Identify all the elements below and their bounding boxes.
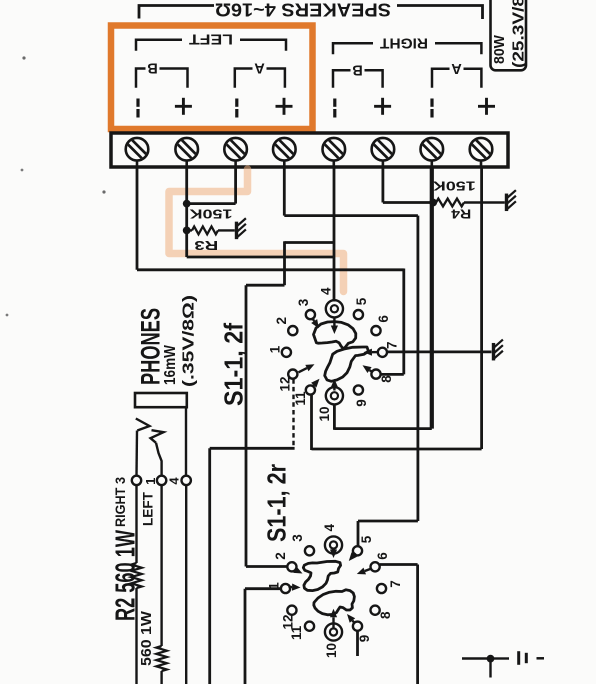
svg-text:3: 3 (296, 298, 311, 306)
svg-text:10: 10 (324, 643, 339, 658)
wire at bottom right (462, 657, 487, 659)
svg-text:1: 1 (266, 582, 281, 590)
wire right vertical to bottom (416, 565, 419, 684)
svg-text:1: 1 (267, 345, 282, 353)
svg-text:11: 11 (293, 391, 308, 406)
svg-text:6: 6 (375, 552, 390, 560)
svg-text:R2 560 1W: R2 560 1W (110, 530, 141, 621)
contact 2 of S1-1,2r (287, 562, 296, 571)
contact 10 of S1-1,2r (double ring) (325, 623, 342, 640)
arrow into wiper from pos3 S1f (311, 319, 319, 329)
svg-text:LEFT: LEFT (140, 492, 156, 526)
bracket speaker A left (235, 69, 285, 88)
terminal strip (8-screw barrier block) (111, 133, 508, 167)
polarity minus mark 1 (136, 99, 139, 107)
svg-text:A: A (254, 59, 265, 75)
screw terminal 2 (185, 158, 188, 167)
svg-text:S1-1, 2f: S1-1, 2f (219, 323, 249, 406)
wire terminal6 down (381, 167, 384, 203)
svg-text:16mW: 16mW (162, 344, 179, 385)
wire below R2 to bottom (135, 588, 137, 684)
wire terminal5 down to pos4 of S1-1,2f (333, 167, 336, 302)
svg-text:80W: 80W (492, 35, 508, 64)
wire jack2 down (160, 485, 162, 646)
resistor R2 560 1W (131, 563, 141, 588)
svg-text:1: 1 (143, 478, 158, 485)
rotor wiper lower of S1-1,2f (325, 347, 369, 381)
label A right (upside down) (450, 62, 464, 76)
svg-text:6: 6 (376, 315, 391, 323)
wire horizontal into pos8 (381, 373, 404, 376)
wire terminal4 run into pos5 S1r (358, 520, 418, 523)
wire jog to S1 area top (285, 241, 335, 244)
polarity plus mark 4 (478, 105, 495, 108)
contact 1 of S1-1,2r (281, 584, 290, 593)
wire vertical left down to bottom (208, 448, 211, 684)
svg-text:A: A (451, 60, 462, 76)
junction node terminal7 wire (429, 199, 437, 207)
svg-text:2: 2 (274, 317, 289, 325)
wire terminal2 down (185, 167, 188, 257)
wire pos7 S1f to chassis ground (387, 350, 491, 353)
junction node on terminal2 wire (upper) (183, 200, 191, 208)
polarity plus mark 3 (374, 105, 391, 108)
polarity plus mark 2 (276, 105, 293, 108)
arrow into wiper from pos7 S1f (364, 349, 378, 356)
label B right (upside down) (351, 64, 365, 78)
jack terminal ring 3 (182, 476, 191, 485)
svg-text:RIGHT: RIGHT (380, 34, 428, 50)
screw terminal 5 (332, 158, 335, 167)
wire pos9 S1r down (356, 631, 359, 656)
wire terminal3 to junction on T2 wire (187, 202, 236, 205)
arrow into wiper from pos4 S1r (330, 549, 337, 558)
wire terminal1 horizontal run (137, 268, 404, 271)
stray scan speck (102, 190, 105, 193)
contact 7 of S1-1,2r (377, 584, 386, 593)
svg-text:3: 3 (290, 534, 305, 542)
label RIGHT (upside down) (373, 36, 435, 51)
contact 4 of S1-1,2f (double ring) (326, 300, 343, 317)
wire terminal6 horizontal to junction (383, 201, 433, 204)
resistor R4 150K (436, 199, 464, 207)
contact 6 of S1-1,2r (371, 562, 380, 571)
arrow into wiper from pos10 S1r (330, 609, 337, 628)
wire dash after capacitor (537, 657, 545, 660)
arrow into wiper from pos2 S1r (293, 567, 302, 574)
dashed wire from pos12 S1f down (292, 379, 294, 446)
wire terminal4 vertical down right side (416, 216, 419, 521)
svg-text:10: 10 (317, 406, 332, 421)
arrow into wiper from pos11 S1f (311, 379, 319, 388)
wire terminal2 horizontal run to T5 wire (187, 256, 334, 259)
svg-text:2: 2 (273, 552, 288, 560)
stray scan speck (22, 56, 25, 59)
svg-text:560 1W: 560 1W (138, 610, 155, 666)
contact 8 of S1-1,2f (371, 370, 380, 379)
polarity plus mark 1 (175, 105, 192, 108)
contact 4 of S1-1,2r (double ring) (325, 536, 342, 553)
label B (upside down) (146, 62, 160, 76)
wire pos10 S1f to terminal7 wire (334, 427, 431, 430)
contact 7 of S1-1,2f (378, 348, 387, 357)
contact 6 of S1-1,2f (371, 326, 380, 335)
jack terminal ring 1 (132, 476, 141, 485)
wire horizontal below S1f (210, 447, 295, 450)
screw terminal 1 (136, 158, 139, 167)
wire terminal7 down (thick) (430, 167, 434, 429)
resistor R3 150K (187, 229, 192, 231)
svg-text:(.35V/8Ω): (.35V/8Ω) (181, 295, 198, 387)
svg-text:4: 4 (322, 523, 337, 531)
polarity minus mark 4 (430, 99, 433, 107)
jack terminal ring 2 (157, 476, 166, 485)
svg-text:150K: 150K (190, 207, 233, 221)
svg-text:SPEAKERS 4~16Ω: SPEAKERS 4~16Ω (215, 0, 391, 21)
svg-text:R4: R4 (451, 206, 471, 220)
bracket LEFT channel (136, 40, 286, 51)
polarity minus mark 3 (333, 99, 336, 107)
stray scan speck (21, 169, 24, 172)
arrow into wiper from pos12 S1f (299, 364, 315, 372)
svg-text:12: 12 (280, 614, 295, 629)
wire terminal4 down (283, 167, 286, 216)
jack contact spring 2 (151, 430, 164, 443)
bracket RIGHT channel (333, 43, 481, 54)
contact 9 of S1-1,2f (354, 385, 363, 394)
arrow into wiper from pos6 S1r (357, 568, 372, 575)
wire junction stub down (489, 659, 491, 678)
wire vertical to pos8 of S1-1,2f (402, 269, 405, 375)
screw terminal 6 (382, 158, 385, 167)
wire terminal3 down (234, 167, 237, 204)
capacitor C plates (517, 651, 520, 665)
wire pos6 S1r to right vertical (380, 563, 418, 566)
junction node bottom right (487, 655, 495, 663)
wire jack1 down (135, 485, 137, 563)
svg-text:R3: R3 (194, 238, 218, 252)
contact 11 of S1-1,2f (306, 385, 315, 394)
svg-text:LEFT: LEFT (189, 31, 233, 47)
wire into pos2 S1r (246, 565, 287, 568)
ground chassis symbol at R3 (237, 218, 246, 239)
resistor 560 1W (156, 646, 166, 671)
contact 3 of S1-1,2f (306, 310, 315, 319)
ground chassis symbol at R4 (507, 190, 516, 211)
highlight box (orange marker) around LEFT speaker terminals (111, 26, 313, 130)
rotor wiper upper of S1-1,2r (303, 561, 340, 590)
wire below 560 1W to bottom (160, 671, 162, 684)
svg-text:7: 7 (388, 580, 403, 588)
arrow into wiper from pos1 S1r (289, 584, 301, 591)
jack sleeve wire (185, 407, 187, 476)
svg-text:8: 8 (378, 611, 393, 619)
contact 5 of S1-1,2f (354, 310, 363, 319)
contact 12 of S1-1,2r (287, 606, 296, 615)
wire terminal8 down (480, 167, 483, 449)
svg-text:5: 5 (359, 535, 374, 543)
arrow into wiper from pos8 S1f (363, 365, 372, 373)
polarity minus mark 2 (235, 99, 238, 107)
label SPEAKERS 4~16Ω (upside down) (214, 0, 397, 21)
label A (upside down) (253, 62, 267, 76)
screw terminal 4 (283, 158, 286, 167)
screw terminal 8 (480, 158, 483, 167)
svg-text:(25.3V/8: (25.3V/8 (511, 0, 528, 68)
phone jack body (135, 393, 187, 407)
svg-text:5: 5 (354, 297, 369, 305)
jack contact spring 1 (136, 419, 150, 431)
label 80W (25.3V/8Ω) box (491, 0, 527, 70)
svg-text:RIGHT 3: RIGHT 3 (112, 477, 128, 527)
arrow into wiper from pos5 S1r (349, 552, 357, 561)
wire from pos1 S1r to bottom edge (245, 587, 281, 590)
wire / bracket for SPEAKERS 4~16Ω terminals (139, 6, 483, 20)
wire pos11 S1f to terminal8 wire (312, 448, 482, 451)
ground chassis symbol at S1f pos7 line (494, 340, 503, 361)
wire terminal4 horizontal run (284, 214, 418, 217)
svg-text:7: 7 (384, 342, 399, 350)
wire long vertical to pos2 of S1-1,2r (245, 285, 248, 566)
contact 2 of S1-1,2f (288, 326, 297, 335)
screw terminal 3 (234, 158, 237, 167)
bracket speaker B right (333, 70, 383, 88)
arrow into wiper from pos4 S1f (331, 317, 338, 335)
contact 11 of S1-1,2r (305, 622, 314, 631)
rotor wiper lower of S1-1,2r (314, 590, 355, 615)
svg-text:B: B (352, 61, 362, 77)
stray scan speck (6, 314, 9, 317)
svg-text:150K: 150K (433, 178, 476, 192)
orange highlighter trace over signal path (169, 169, 344, 292)
contact 12 of S1-1,2f (288, 370, 297, 379)
bracket speaker A right (432, 69, 481, 88)
label LEFT (upside down) (182, 33, 240, 48)
svg-text:8: 8 (379, 375, 394, 383)
contact 8 of S1-1,2r (371, 606, 380, 615)
svg-text:9: 9 (354, 399, 369, 407)
wire jack3 down to bottom (185, 485, 187, 684)
contact 10 of S1-1,2f (double ring) (326, 387, 343, 404)
svg-text:S1-1, 2r: S1-1, 2r (262, 464, 292, 542)
bracket speaker B left (136, 69, 188, 88)
junction node on terminal2 wire at R3 (183, 227, 191, 235)
svg-text:12: 12 (277, 376, 292, 391)
svg-text:PHONES: PHONES (136, 308, 166, 385)
rotor wiper upper of S1-1,2f (314, 322, 356, 349)
contact 9 of S1-1,2r (353, 622, 362, 631)
wire terminal1 down (136, 167, 139, 270)
arrow into wiper from pos10 S1f (331, 379, 338, 391)
svg-text:9: 9 (357, 635, 372, 643)
wire jog horizontal (246, 284, 285, 287)
arrow into wiper from pos9 S1r (347, 614, 355, 623)
contact 3 of S1-1,2r (305, 546, 314, 555)
contact 5 of S1-1,2r (353, 546, 362, 555)
contact 1 of S1-1,2f (282, 348, 291, 357)
wire junction to capacitor (494, 657, 510, 659)
screw terminal 7 (430, 158, 433, 167)
svg-text:B: B (147, 59, 157, 75)
svg-text:4: 4 (318, 287, 333, 295)
svg-text:4: 4 (167, 477, 182, 485)
